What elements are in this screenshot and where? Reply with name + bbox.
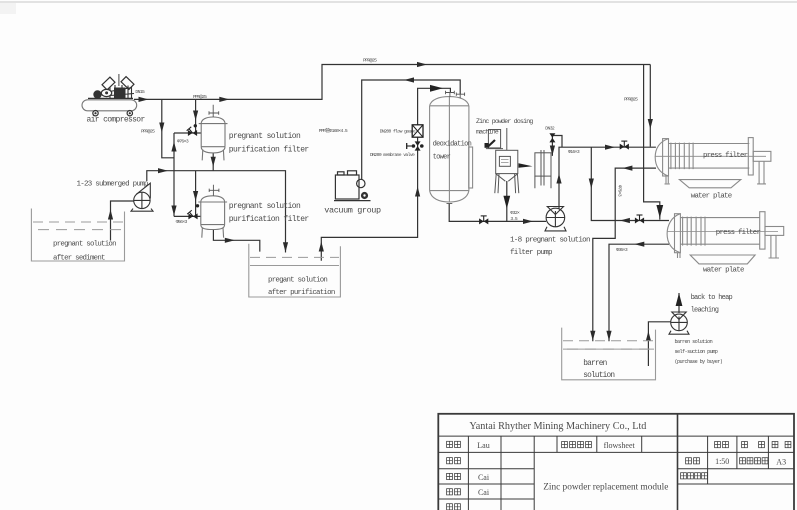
svg-text:Cai: Cai [478,488,490,497]
svg-text:Φ56×3: Φ56×3 [176,219,188,225]
svg-text:back to heap: back to heap [691,294,733,302]
svg-text:PPR@25: PPR@25 [363,58,377,64]
svg-text:A3: A3 [776,457,786,466]
svg-text:Lau: Lau [477,441,489,450]
svg-text:water plate: water plate [691,192,732,200]
svg-text:press filter: press filter [703,152,748,160]
svg-text:self-suction pump: self-suction pump [675,349,718,355]
svg-text:Yantai Rhyther Mining Machiner: Yantai Rhyther Mining Machinery Co., Ltd [469,421,646,432]
svg-text:PPR@25: PPR@25 [193,94,207,100]
svg-text:barren: barren [583,360,606,368]
svg-text:purification filter: purification filter [229,215,310,224]
svg-text:1-23 submerged pump: 1-23 submerged pump [77,181,148,189]
svg-text:DN32: DN32 [545,125,555,131]
svg-text:press filter: press filter [716,229,761,237]
svg-text:machine: machine [476,128,499,135]
svg-text:DN15: DN15 [135,89,145,95]
svg-text:PPR管Φ160×4.5: PPR管Φ160×4.5 [319,127,348,134]
svg-text:Φ76×3: Φ76×3 [177,138,189,144]
svg-text:DN200 membrane valve: DN200 membrane valve [370,152,415,158]
svg-text:1:50: 1:50 [715,457,729,466]
svg-text:Cai: Cai [478,473,490,482]
svg-text:pregant solution: pregant solution [268,277,327,285]
svg-text:deoxidation: deoxidation [433,140,472,148]
svg-text:Φ16×3: Φ16×3 [568,149,580,155]
svg-text:tower: tower [433,153,451,161]
svg-text:Φ76×3: Φ76×3 [617,185,623,197]
svg-text:3.5: 3.5 [510,216,517,222]
svg-text:pregnant solution: pregnant solution [53,241,116,249]
svg-text:flowsheet: flowsheet [604,441,636,450]
svg-text:pregnant solution: pregnant solution [229,202,301,211]
svg-text:DN200 flow gauge: DN200 flow gauge [380,128,416,134]
svg-text:purification filter: purification filter [229,146,310,155]
svg-text:after sediment: after sediment [53,254,105,262]
svg-text:Φ36×3: Φ36×3 [616,247,628,253]
svg-text:vacuum group: vacuum group [324,205,381,215]
svg-text:barren solution: barren solution [675,339,713,345]
svg-text:after purification: after purification [268,289,335,297]
svg-text:PPR@25: PPR@25 [141,128,155,134]
svg-text:filter pump: filter pump [510,249,553,257]
svg-text:1-8 pregnant solution: 1-8 pregnant solution [510,237,590,245]
svg-text:water plate: water plate [703,266,744,274]
svg-text:Zinc powder replacement module: Zinc powder replacement module [543,483,668,493]
svg-text:Zinc powder dosing: Zinc powder dosing [476,118,533,125]
svg-text:solution: solution [583,372,614,380]
svg-text:pregnant solution: pregnant solution [229,132,301,141]
svg-text:PPR@25: PPR@25 [624,96,638,102]
svg-text:leaching: leaching [691,307,719,315]
svg-text:air compressor: air compressor [87,116,146,125]
svg-text:(purchase by buyer): (purchase by buyer) [675,359,723,365]
svg-text:Φ32×: Φ32× [510,210,520,216]
